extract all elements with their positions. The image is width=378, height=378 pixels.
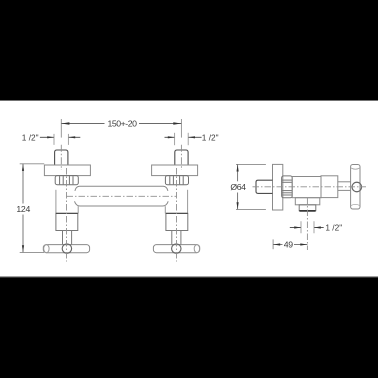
svg-text:124: 124 <box>16 204 30 214</box>
svg-text:1 /2": 1 /2" <box>202 132 219 142</box>
svg-text:1 /2": 1 /2" <box>325 223 342 233</box>
svg-text:49: 49 <box>284 240 294 250</box>
svg-text:Ø64: Ø64 <box>230 182 246 192</box>
svg-text:150+-20: 150+-20 <box>108 119 138 129</box>
svg-text:1 /2": 1 /2" <box>22 132 39 142</box>
